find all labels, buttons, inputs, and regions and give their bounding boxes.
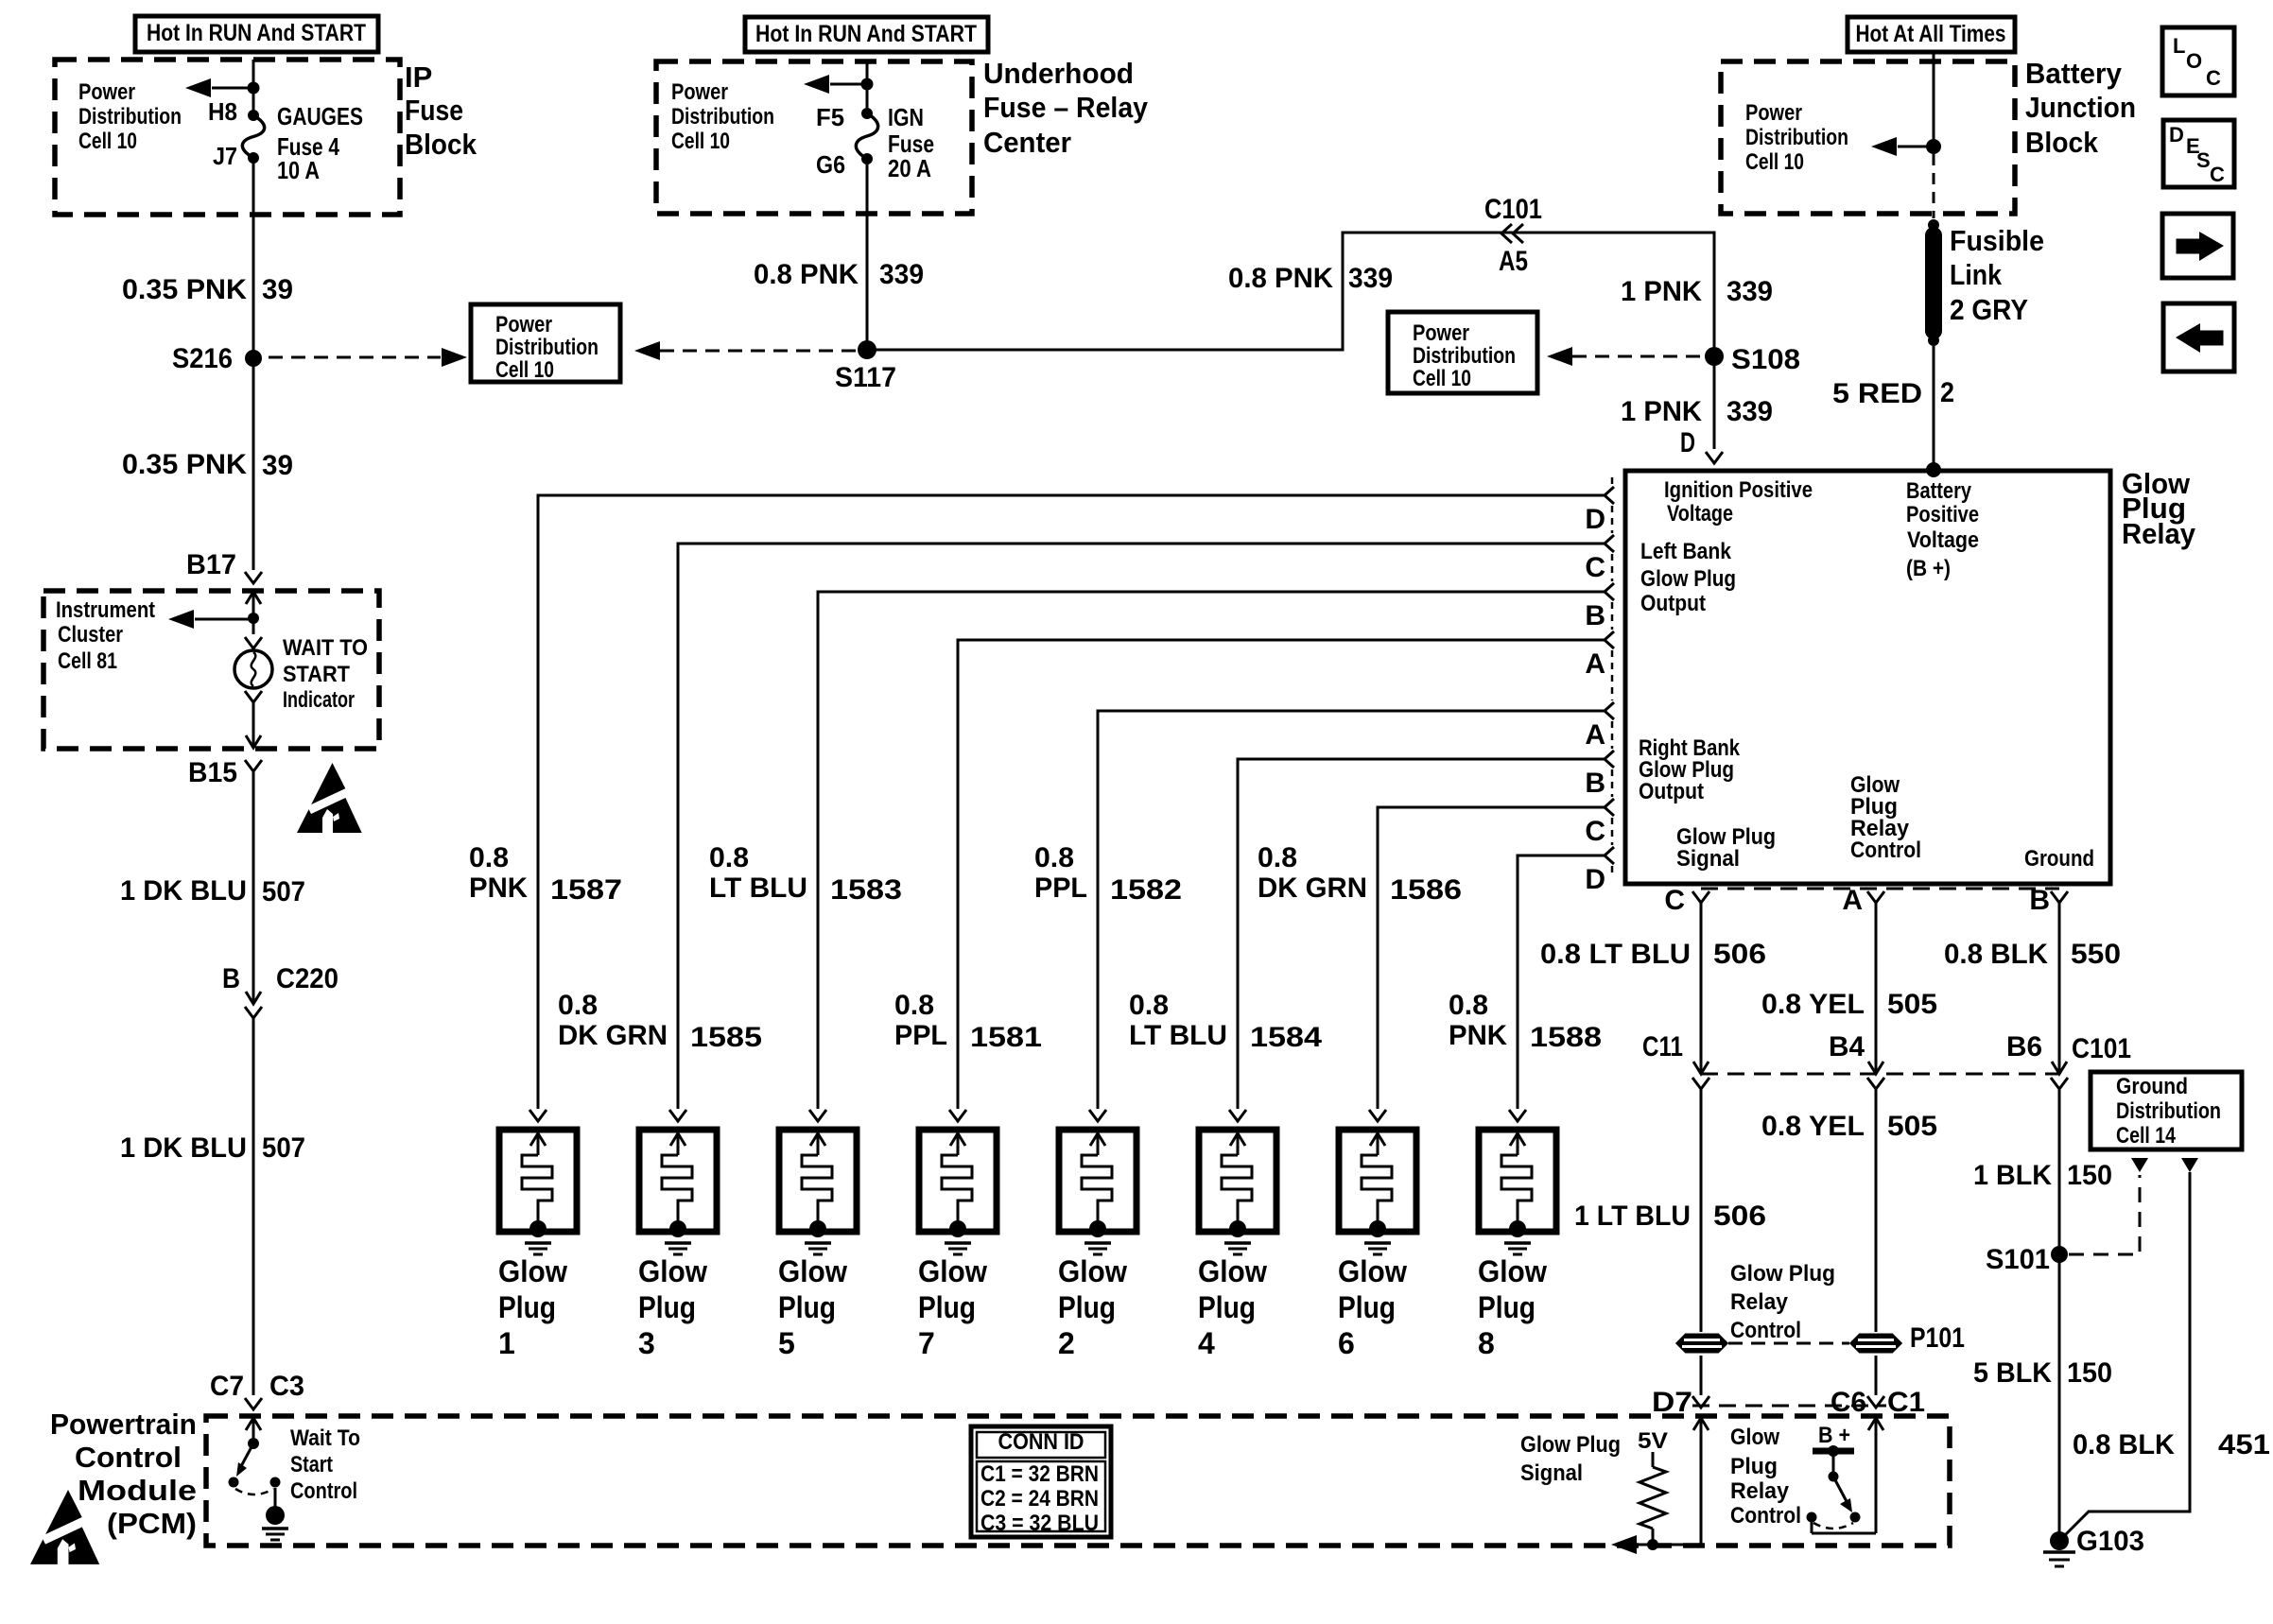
splice S101 (2051, 1246, 2068, 1263)
relay pin D entry (1605, 487, 1614, 504)
wire: 1 LT BLU 506 (1700, 1089, 1703, 1332)
svg-text:1 BLK: 1 BLK (1973, 1160, 2052, 1191)
harness connector D7/C6-C1 dashed (1692, 1405, 1886, 1408)
svg-text:Glow Plug: Glow Plug (1520, 1432, 1621, 1458)
svg-text:7: 7 (918, 1326, 935, 1360)
node: relay B+ terminal (1926, 462, 1941, 477)
Power Distribution Cell 10 box (right) (1388, 312, 1537, 393)
svg-text:B4: B4 (1829, 1031, 1865, 1063)
svg-text:550: 550 (2071, 939, 2121, 970)
svg-text:PPL: PPL (894, 1020, 947, 1051)
svg-text:507: 507 (262, 1132, 305, 1164)
svg-text:507: 507 (262, 876, 305, 907)
Instrument Cluster dashed box (43, 591, 379, 749)
node: feed junction (248, 82, 260, 95)
svg-text:Glow Plug: Glow Plug (1640, 566, 1736, 592)
svg-text:Plug: Plug (778, 1290, 836, 1324)
svg-text:A: A (1585, 648, 1605, 680)
svg-text:Fuse: Fuse (405, 94, 463, 127)
svg-text:C: C (1585, 552, 1605, 583)
connector C220 pin B (246, 992, 261, 1004)
dashed wire S108 to Power Distribution (1572, 355, 1702, 358)
wire: 0.35 PNK 39 to S216 (252, 158, 255, 570)
dashed wire to fusible link (1933, 154, 1935, 218)
svg-text:0.8 BLK: 0.8 BLK (2073, 1429, 2175, 1460)
svg-text:Cell 81: Cell 81 (58, 648, 117, 674)
next-page arrow icon (2162, 214, 2233, 278)
wire: 1 DK BLU 507 (252, 771, 255, 1004)
svg-text:0.8 LT BLU: 0.8 LT BLU (1540, 939, 1691, 970)
svg-text:Junction: Junction (2025, 91, 2136, 124)
svg-text:Glow: Glow (498, 1254, 567, 1288)
svg-text:1587: 1587 (550, 874, 622, 906)
svg-text:5 BLK: 5 BLK (1973, 1357, 2052, 1389)
relay pin B entry (1605, 583, 1614, 600)
relay pin B (Ground) (2051, 891, 2068, 903)
wire: 0.8 PNK 339 to S117 (866, 159, 869, 350)
wire: battery feed (1933, 52, 1935, 139)
svg-text:C101: C101 (2072, 1033, 2131, 1064)
header box: Hot In RUN And START (IP) (135, 16, 378, 52)
svg-text:505: 505 (1887, 1111, 1937, 1142)
svg-text:LT BLU: LT BLU (1129, 1020, 1227, 1051)
svg-text:0.8 PNK: 0.8 PNK (1228, 263, 1333, 294)
svg-text:1586: 1586 (1390, 874, 1462, 906)
svg-text:Block: Block (2025, 126, 2099, 159)
svg-text:B6: B6 (2006, 1031, 2042, 1063)
Ground Distribution Cell 14 box (2091, 1072, 2242, 1149)
svg-text:A5: A5 (1499, 246, 1528, 277)
wire: fuse feed (252, 60, 255, 115)
svg-text:C7: C7 (210, 1371, 244, 1402)
svg-text:5V: 5V (1638, 1428, 1668, 1454)
wire: glow plug circuit 1 (538, 495, 1605, 1109)
svg-text:C220: C220 (276, 963, 338, 994)
relay pin C entry (1605, 535, 1614, 552)
glow plug 6 (1338, 1110, 1416, 1360)
svg-text:A: A (1585, 719, 1605, 751)
svg-text:Signal: Signal (1676, 846, 1740, 872)
wire: glow plug circuit 8 (1518, 855, 1605, 1109)
ESD symbol (upper) (297, 763, 368, 833)
svg-text:Battery: Battery (2025, 57, 2123, 90)
svg-text:Link: Link (1950, 258, 2003, 291)
svg-text:Cell 10: Cell 10 (671, 129, 730, 154)
svg-text:C: C (1664, 885, 1685, 916)
svg-text:WAIT TO: WAIT TO (283, 635, 368, 661)
svg-text:0.8 YEL: 0.8 YEL (1761, 989, 1865, 1020)
wires into harness connector (1700, 1356, 1703, 1395)
svg-text:39: 39 (262, 450, 293, 481)
header box: Hot At All Times (1848, 17, 2015, 52)
svg-text:S117: S117 (835, 362, 896, 393)
svg-text:Plug: Plug (1198, 1290, 1256, 1324)
switch: relay control driver (1813, 1523, 1853, 1529)
svg-text:0.8: 0.8 (1449, 990, 1488, 1021)
svg-text:L: L (2173, 34, 2185, 58)
svg-text:150: 150 (2067, 1357, 2112, 1389)
svg-text:D: D (1585, 504, 1605, 535)
svg-text:1: 1 (498, 1326, 515, 1360)
wire: 0.8 YEL 505 (lower) (1875, 1089, 1878, 1332)
svg-text:Distribution: Distribution (2116, 1098, 2221, 1124)
svg-text:339: 339 (1726, 396, 1773, 427)
svg-text:D: D (2169, 123, 2184, 147)
relay pin C entry (1605, 799, 1614, 816)
svg-text:PNK: PNK (469, 872, 528, 904)
pass-through connector P101 (1677, 1335, 1726, 1352)
svg-text:Ground: Ground (2116, 1074, 2188, 1099)
svg-text:2: 2 (1058, 1326, 1075, 1360)
svg-text:D: D (1585, 864, 1605, 895)
svg-text:B +: B + (1818, 1423, 1850, 1448)
svg-text:0.8: 0.8 (1034, 842, 1074, 873)
svg-text:2 GRY: 2 GRY (1950, 293, 2028, 326)
svg-text:Instrument: Instrument (56, 597, 155, 623)
svg-text:8: 8 (1478, 1326, 1495, 1360)
svg-text:Relay: Relay (1730, 1478, 1790, 1504)
svg-text:5 RED: 5 RED (1832, 378, 1922, 409)
svg-text:1584: 1584 (1250, 1022, 1322, 1053)
svg-text:Powertrain: Powertrain (50, 1408, 197, 1441)
svg-text:Underhood: Underhood (983, 57, 1134, 90)
svg-text:5: 5 (778, 1326, 795, 1360)
svg-text:C1: C1 (1887, 1387, 1925, 1418)
svg-text:Plug: Plug (918, 1290, 976, 1324)
wire: glow plug circuit 4 (958, 640, 1605, 1109)
Power Distribution Cell 10 box (left) (471, 304, 620, 382)
svg-text:P101: P101 (1910, 1322, 1965, 1354)
svg-text:Glow: Glow (1730, 1425, 1779, 1450)
wire: glow plug circuit 3 (818, 592, 1605, 1109)
svg-text:10 A: 10 A (277, 156, 320, 184)
svg-text:B17: B17 (186, 549, 236, 580)
svg-text:Power: Power (495, 312, 552, 337)
relay bottom connector face dashed (1701, 888, 2059, 890)
svg-text:J7: J7 (213, 142, 237, 170)
svg-text:C2 = 24 BRN: C2 = 24 BRN (980, 1486, 1099, 1512)
svg-text:0.8: 0.8 (894, 990, 934, 1021)
svg-text:G103: G103 (2076, 1526, 2144, 1557)
svg-text:Control: Control (1730, 1318, 1801, 1343)
svg-text:0.8 BLK: 0.8 BLK (1944, 939, 2048, 970)
ESD symbol (lower) (30, 1490, 106, 1564)
splice S108 (1705, 347, 1724, 366)
fusible link 2 GRY (1928, 219, 1939, 231)
svg-text:Left Bank: Left Bank (1640, 539, 1732, 564)
svg-text:Block: Block (405, 128, 477, 161)
svg-text:S216: S216 (172, 343, 233, 374)
svg-text:Cell 10: Cell 10 (1745, 149, 1804, 175)
svg-text:Plug: Plug (1478, 1290, 1536, 1324)
svg-text:B: B (1585, 768, 1605, 799)
svg-text:Control: Control (290, 1478, 357, 1504)
svg-text:506: 506 (1713, 1201, 1766, 1232)
svg-text:1585: 1585 (690, 1022, 762, 1053)
svg-text:H8: H8 (208, 97, 237, 126)
svg-text:C3: C3 (269, 1371, 304, 1402)
svg-text:Glow: Glow (1198, 1254, 1267, 1288)
svg-text:1 PNK: 1 PNK (1621, 396, 1702, 427)
svg-text:Plug: Plug (1338, 1290, 1396, 1324)
glow plug 3 (638, 1110, 717, 1360)
svg-text:339: 339 (1726, 276, 1773, 307)
wire into instrument cluster (246, 592, 261, 604)
wire: 0.8 YEL 505 (1875, 903, 1878, 1074)
svg-text:F5: F5 (816, 103, 844, 131)
svg-text:S101: S101 (1986, 1244, 2050, 1275)
svg-text:Output: Output (1640, 591, 1706, 616)
Powertrain Control Module (PCM) dashed box (206, 1416, 1950, 1546)
LOC icon box (2162, 27, 2234, 95)
svg-text:Plug: Plug (498, 1290, 556, 1324)
relay pin B entry (1605, 751, 1614, 768)
relay pin D entry (1605, 847, 1614, 864)
glow plug 1 (498, 1110, 577, 1360)
svg-text:150: 150 (2067, 1160, 2112, 1191)
svg-text:LT BLU: LT BLU (709, 872, 807, 904)
svg-text:Module: Module (78, 1474, 197, 1507)
svg-text:GAUGES: GAUGES (277, 102, 363, 130)
wire: 0.8 LT BLU 506 (1700, 903, 1703, 1074)
wire: 0.8 BLK 451 to G103 (2181, 1158, 2198, 1172)
wire: fuse feed (866, 61, 869, 113)
svg-text:506: 506 (1713, 939, 1766, 970)
svg-text:1588: 1588 (1530, 1022, 1602, 1053)
svg-text:Distribution: Distribution (78, 104, 182, 130)
ground G103 (2050, 1531, 2069, 1550)
header box: Hot In RUN And START (underhood) (745, 17, 988, 52)
wire: 0.8 BLK 550 (2058, 903, 2061, 1074)
svg-text:Glow Plug: Glow Plug (1730, 1261, 1835, 1287)
svg-text:1583: 1583 (830, 874, 902, 906)
glow plug 5 (778, 1110, 857, 1360)
wire: 0.8 PNK 339 run to C101 (867, 233, 1714, 449)
svg-text:1581: 1581 (970, 1022, 1042, 1053)
svg-text:Glow: Glow (1478, 1254, 1547, 1288)
svg-text:PPL: PPL (1034, 872, 1087, 904)
dashed wire S216 to Power Distribution (269, 356, 441, 359)
svg-text:START: START (283, 662, 350, 687)
svg-text:3: 3 (638, 1326, 655, 1360)
svg-text:1582: 1582 (1110, 874, 1182, 906)
fuse GAUGES Fuse 4 10A, pins H8/J7 (248, 110, 259, 121)
PCM: Glow Plug Relay Control driver (1868, 1418, 1883, 1430)
svg-text:Fuse – Relay: Fuse – Relay (983, 91, 1149, 124)
svg-text:Cell 14: Cell 14 (2116, 1123, 2177, 1149)
svg-text:Relay: Relay (1730, 1289, 1789, 1315)
wire: 5 RED 2 to relay (1933, 346, 1935, 469)
svg-text:2: 2 (1940, 377, 1954, 408)
svg-text:A: A (1842, 885, 1863, 916)
svg-text:39: 39 (262, 274, 293, 305)
svg-text:20 A: 20 A (888, 154, 931, 182)
svg-text:0.35 PNK: 0.35 PNK (122, 449, 247, 480)
svg-text:C11: C11 (1642, 1031, 1683, 1063)
wire: 1 DK BLU 507 to PCM (252, 1018, 255, 1395)
svg-text:G6: G6 (816, 150, 845, 179)
svg-text:0.8: 0.8 (469, 842, 509, 873)
svg-text:Start: Start (290, 1452, 333, 1477)
Underhood Fuse-Relay Center dashed box (656, 61, 972, 214)
svg-text:C: C (1585, 816, 1605, 847)
svg-text:Ignition Positive: Ignition Positive (1664, 477, 1813, 503)
in-line connector C11/B4/B6 C101 (1701, 1073, 2059, 1076)
svg-text:S108: S108 (1731, 344, 1800, 375)
svg-text:0.8: 0.8 (709, 842, 749, 873)
svg-text:C1 = 32 BRN: C1 = 32 BRN (980, 1461, 1099, 1487)
IP Fuse Block dashed box (55, 60, 400, 215)
svg-text:Glow: Glow (778, 1254, 847, 1288)
svg-text:Cell 10: Cell 10 (495, 357, 554, 383)
node: signal/pullup junction (1647, 1539, 1658, 1550)
svg-text:Control: Control (1730, 1503, 1801, 1529)
node: battery junction (1926, 139, 1941, 154)
svg-text:Power: Power (671, 79, 728, 105)
svg-text:PNK: PNK (1449, 1020, 1507, 1051)
svg-text:0.8 YEL: 0.8 YEL (1761, 1111, 1865, 1142)
svg-text:339: 339 (879, 259, 924, 290)
PCM: Glow Plug Signal input (1693, 1418, 1709, 1430)
svg-text:Voltage: Voltage (1667, 501, 1733, 527)
svg-text:B: B (1585, 600, 1605, 631)
svg-text:1 DK BLU: 1 DK BLU (120, 1132, 247, 1164)
relay pin A entry (1605, 702, 1614, 719)
svg-text:Glow: Glow (638, 1254, 707, 1288)
Battery Junction Block dashed box (1721, 61, 2015, 214)
svg-text:Plug: Plug (638, 1290, 696, 1324)
svg-text:Center: Center (983, 126, 1071, 159)
svg-text:Distribution: Distribution (671, 104, 774, 130)
svg-text:IP: IP (405, 60, 432, 94)
svg-text:B: B (2029, 885, 2050, 916)
svg-text:Battery: Battery (1906, 478, 1972, 504)
glow plug 8 (1478, 1110, 1556, 1360)
svg-text:Cell 10: Cell 10 (78, 129, 137, 154)
svg-text:Power: Power (1413, 320, 1469, 346)
svg-text:IGN: IGN (888, 103, 924, 131)
splice S117 (858, 340, 876, 359)
svg-text:Distribution: Distribution (495, 335, 599, 360)
dashed wire S101 to Ground Distribution (2069, 1175, 2140, 1254)
svg-text:Hot In RUN And START: Hot In RUN And START (147, 20, 366, 46)
node: indicator branch (248, 613, 259, 624)
wire: ground 5 BLK 150 / G103 (2058, 1089, 2061, 1541)
svg-text:Glow: Glow (918, 1254, 987, 1288)
svg-text:Control: Control (75, 1441, 182, 1474)
svg-text:Hot At All Times: Hot At All Times (1856, 21, 2006, 47)
svg-text:(PCM): (PCM) (107, 1507, 197, 1540)
Glow Plug Relay box U1 (1625, 471, 2110, 884)
node: feed junction (861, 78, 874, 91)
relay pin A entry (1605, 631, 1614, 648)
svg-text:1 DK BLU: 1 DK BLU (120, 875, 247, 907)
svg-text:Power: Power (78, 79, 135, 105)
wire: glow plug circuit 7 (1378, 807, 1605, 1109)
relay left connector face dashed (1611, 477, 1614, 485)
svg-text:C: C (2210, 163, 2225, 186)
svg-text:Control: Control (1850, 838, 1921, 863)
svg-text:Power: Power (1745, 100, 1802, 126)
wire: glow plug circuit 5 (1098, 711, 1605, 1109)
svg-text:Cluster: Cluster (58, 622, 123, 648)
WAIT TO START Indicator bulb (245, 637, 262, 648)
wire: arrow to Power Distribution (1898, 146, 1934, 148)
dashed wire S117 to Power Distribution (660, 350, 856, 353)
svg-text:0.8: 0.8 (1258, 842, 1297, 873)
wire: glow plug circuit 2 (678, 544, 1605, 1109)
glow plug 4 (1198, 1110, 1276, 1360)
svg-text:Glow: Glow (1058, 1254, 1127, 1288)
svg-text:Output: Output (1639, 779, 1704, 804)
svg-text:1 PNK: 1 PNK (1621, 276, 1702, 307)
svg-text:4: 4 (1198, 1326, 1215, 1360)
PCM: Wait To Start Control switch (246, 1418, 261, 1430)
svg-text:0.8: 0.8 (1129, 990, 1169, 1021)
svg-text:B: B (222, 963, 240, 994)
svg-text:S: S (2196, 148, 2211, 172)
svg-text:(B +): (B +) (1906, 556, 1951, 581)
svg-text:0.8: 0.8 (558, 990, 598, 1021)
svg-text:CONN ID: CONN ID (998, 1429, 1084, 1455)
svg-text:Signal: Signal (1520, 1460, 1583, 1486)
svg-text:Cell 10: Cell 10 (1413, 366, 1471, 391)
fuse IGN Fuse 20A, pins F5/G6 (861, 108, 873, 119)
svg-text:Wait To: Wait To (290, 1425, 360, 1451)
relay pin C (Glow Plug Signal) (1692, 891, 1709, 903)
svg-text:Distribution: Distribution (1413, 343, 1516, 369)
wire: arrow to Power Distribution (830, 83, 867, 86)
wire: arrow to Power Distribution (212, 87, 253, 90)
svg-text:339: 339 (1348, 263, 1393, 294)
svg-text:C3 = 32 BLU: C3 = 32 BLU (980, 1511, 1099, 1536)
svg-text:0.35 PNK: 0.35 PNK (122, 274, 247, 305)
DESC icon box (2163, 120, 2234, 187)
svg-text:DK GRN: DK GRN (1258, 872, 1367, 904)
glow plug 7 (918, 1110, 997, 1360)
svg-text:C6: C6 (1831, 1387, 1866, 1418)
svg-text:Ground: Ground (2024, 846, 2094, 872)
svg-text:Voltage: Voltage (1907, 527, 1979, 553)
svg-text:Hot In RUN And START: Hot In RUN And START (755, 21, 977, 47)
svg-text:Fusible: Fusible (1950, 224, 2044, 257)
svg-text:C101: C101 (1484, 194, 1542, 225)
node: driver contact (left) (1807, 1512, 1817, 1523)
svg-text:Relay: Relay (2122, 517, 2196, 550)
CONN ID table (971, 1426, 1111, 1537)
connector B15 (245, 760, 262, 771)
svg-text:505: 505 (1887, 989, 1937, 1020)
wire: arrow to instrument cluster bus (195, 618, 253, 621)
svg-text:Positive: Positive (1906, 502, 1979, 527)
glow plug 2 (1058, 1110, 1136, 1360)
svg-text:B15: B15 (188, 757, 237, 788)
svg-text:Glow: Glow (1338, 1254, 1407, 1288)
svg-text:D7: D7 (1652, 1387, 1692, 1418)
svg-text:451: 451 (2218, 1429, 2270, 1460)
svg-text:Plug: Plug (1730, 1454, 1778, 1479)
svg-text:0.8 PNK: 0.8 PNK (754, 259, 859, 290)
svg-text:Plug: Plug (1058, 1290, 1116, 1324)
svg-text:1 LT BLU: 1 LT BLU (1574, 1201, 1691, 1232)
wire: glow plug circuit 6 (1238, 759, 1605, 1109)
svg-text:Distribution: Distribution (1745, 125, 1848, 150)
svg-text:O: O (2186, 49, 2202, 73)
svg-text:C: C (2206, 66, 2221, 90)
prev-page arrow icon (2163, 303, 2234, 371)
relay pin A (Glow Plug Relay Control) (1867, 891, 1884, 903)
svg-text:D: D (1680, 427, 1695, 458)
